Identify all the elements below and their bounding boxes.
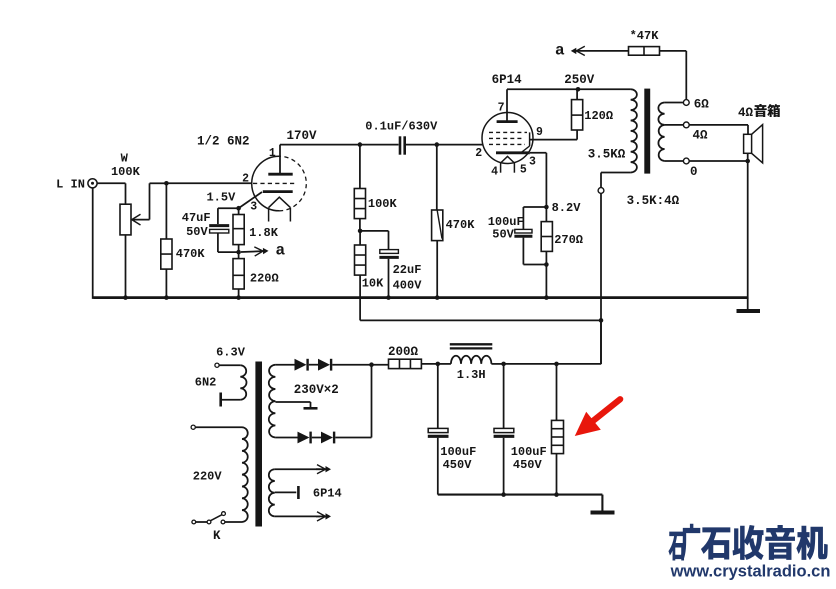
node coupling junction bbox=[435, 142, 440, 147]
svg-text:1/2 6N2: 1/2 6N2 bbox=[197, 135, 250, 149]
wire plate 170V bbox=[280, 129, 360, 145]
ground right bbox=[737, 298, 761, 311]
wire pot wiper bbox=[132, 183, 165, 225]
triode V1 1/2 6N2 bbox=[197, 135, 306, 222]
resistor 470K V2 grid bbox=[432, 145, 476, 300]
resistor 100K plate load bbox=[354, 145, 397, 231]
svg-text:22uF: 22uF bbox=[393, 263, 422, 277]
svg-text:8.2V: 8.2V bbox=[552, 201, 582, 215]
svg-text:100K: 100K bbox=[111, 165, 141, 179]
wire B+ branch bbox=[360, 318, 603, 323]
transformer T1 power bbox=[193, 345, 339, 526]
terminal 4Ω tap bbox=[683, 122, 748, 142]
resistor 10K bbox=[355, 231, 385, 321]
wire input to pot bbox=[97, 183, 125, 204]
node cathode 1.5V bbox=[206, 190, 240, 210]
wire ground bus bbox=[94, 296, 749, 299]
wire grid to V2 bbox=[437, 144, 483, 146]
wire pot to ground bbox=[123, 235, 128, 300]
wire filter ground bbox=[438, 495, 603, 512]
svg-text:6P14: 6P14 bbox=[313, 487, 342, 501]
svg-text:a: a bbox=[555, 42, 565, 60]
svg-text:6Ω: 6Ω bbox=[694, 97, 710, 111]
svg-text:0: 0 bbox=[690, 165, 698, 179]
svg-text:120Ω: 120Ω bbox=[584, 109, 613, 123]
svg-text:3.5KΩ: 3.5KΩ bbox=[588, 147, 626, 161]
svg-text:470K: 470K bbox=[176, 247, 206, 261]
node a (feedback tap) bbox=[236, 242, 285, 260]
node grid junction bbox=[164, 181, 169, 186]
choke 1.3H bbox=[438, 344, 504, 382]
terminal 6Ω tap bbox=[683, 97, 709, 111]
diode D2 bbox=[318, 359, 372, 371]
resistor 120Ω screen bbox=[572, 89, 614, 139]
resistor bleeder bbox=[552, 364, 564, 497]
speaker 4Ω bbox=[744, 125, 763, 163]
wire V2 cathode bbox=[530, 153, 547, 207]
label 4Ω音箱 speaker bbox=[738, 104, 780, 120]
svg-text:5: 5 bbox=[520, 163, 527, 176]
svg-text:10K: 10K bbox=[362, 276, 384, 290]
pentode V2 6P14 bbox=[475, 73, 577, 179]
svg-text:*47K: *47K bbox=[630, 29, 660, 43]
svg-text:3: 3 bbox=[529, 156, 536, 169]
resistor 220Ω bbox=[233, 259, 279, 300]
heater 6N2 bbox=[195, 375, 241, 406]
potentiometer W 100K bbox=[111, 152, 141, 235]
resistor 200Ω bbox=[388, 345, 438, 369]
svg-text:0.1uF/630V: 0.1uF/630V bbox=[365, 119, 438, 133]
svg-text:1.3H: 1.3H bbox=[457, 368, 486, 382]
svg-text:50V: 50V bbox=[492, 228, 514, 242]
node filter mid bbox=[501, 362, 556, 367]
wire grid to V1 bbox=[166, 182, 252, 184]
svg-text:6P14: 6P14 bbox=[492, 73, 523, 87]
wire primary bottom bbox=[598, 173, 631, 365]
svg-text:450V: 450V bbox=[443, 458, 473, 472]
watermark 矿石收音机 bbox=[668, 524, 827, 561]
capacitor 100uF/50V bbox=[488, 207, 547, 265]
svg-text:L IN: L IN bbox=[56, 178, 85, 192]
wire input ground bbox=[93, 188, 95, 299]
svg-text:4: 4 bbox=[491, 166, 498, 179]
node decoupling junction bbox=[358, 229, 363, 234]
svg-text:4Ω: 4Ω bbox=[738, 106, 754, 120]
wire rectifier up bbox=[371, 365, 373, 438]
resistor 1.8K bbox=[233, 208, 279, 258]
wire HV top bbox=[275, 364, 294, 366]
svg-text:1.8K: 1.8K bbox=[249, 226, 279, 240]
svg-text:3.5K:4Ω: 3.5K:4Ω bbox=[627, 194, 680, 208]
svg-text:www.crystalradio.cn: www.crystalradio.cn bbox=[670, 563, 831, 581]
resistor 270Ω bbox=[541, 207, 583, 300]
svg-text:220Ω: 220Ω bbox=[250, 271, 279, 285]
svg-text:470K: 470K bbox=[446, 218, 476, 232]
node filter out bbox=[554, 320, 601, 366]
svg-text:6.3V: 6.3V bbox=[216, 345, 246, 359]
terminal 6.3V bbox=[215, 363, 219, 367]
svg-text:3: 3 bbox=[250, 200, 257, 213]
terminal 220V bbox=[191, 425, 195, 429]
ground bottom bbox=[591, 511, 615, 515]
watermark url bbox=[670, 563, 831, 581]
svg-text:K: K bbox=[213, 529, 221, 543]
svg-text:W: W bbox=[121, 152, 129, 166]
svg-text:2: 2 bbox=[242, 172, 249, 185]
node filter in bbox=[436, 362, 441, 367]
capacitor 100uF/450V B bbox=[494, 364, 547, 497]
svg-text:a: a bbox=[275, 242, 285, 260]
svg-text:100K: 100K bbox=[368, 197, 398, 211]
svg-text:230V×2: 230V×2 bbox=[294, 383, 339, 397]
resistor 470K grid leak bbox=[161, 183, 206, 300]
switch K bbox=[192, 512, 226, 543]
input terminal L IN bbox=[56, 178, 97, 192]
svg-text:200Ω: 200Ω bbox=[388, 345, 419, 359]
svg-text:1.5V: 1.5V bbox=[206, 190, 236, 204]
center tap ground bbox=[275, 402, 317, 408]
capacitor 0.1uF/630V bbox=[360, 119, 438, 154]
capacitor 22uF/400V bbox=[360, 231, 422, 300]
capacitor 100uF/450V A bbox=[428, 364, 477, 495]
svg-text:4Ω: 4Ω bbox=[692, 128, 708, 142]
node 8.2V bbox=[544, 201, 581, 215]
wire feedback drop bbox=[685, 51, 687, 100]
node 250V bbox=[564, 73, 595, 92]
node plate junction bbox=[358, 142, 363, 147]
terminal 0 tap bbox=[683, 158, 750, 179]
transformer T2 output 3.5K:4Ω bbox=[588, 89, 684, 208]
resistor *47K feedback bbox=[555, 29, 686, 59]
svg-text:50V: 50V bbox=[186, 225, 208, 239]
svg-text:1: 1 bbox=[269, 147, 276, 160]
wire HV bottom bbox=[275, 437, 297, 439]
diode D1 bbox=[295, 359, 319, 371]
heater 6P14 leads bbox=[275, 465, 342, 521]
capacitor 47uF/50V bbox=[182, 208, 239, 252]
wire 250V line bbox=[507, 88, 631, 90]
svg-text:250V: 250V bbox=[564, 73, 595, 87]
svg-text:270Ω: 270Ω bbox=[554, 233, 583, 247]
svg-text:400V: 400V bbox=[393, 278, 423, 292]
svg-text:47uF: 47uF bbox=[182, 211, 211, 225]
diode D3 bbox=[298, 432, 322, 444]
svg-text:220V: 220V bbox=[193, 470, 223, 484]
svg-text:170V: 170V bbox=[286, 129, 317, 143]
node rectifier bbox=[369, 362, 388, 367]
svg-text:2: 2 bbox=[475, 147, 482, 160]
svg-text:7: 7 bbox=[498, 101, 505, 114]
svg-text:6N2: 6N2 bbox=[195, 375, 217, 389]
diode D4 bbox=[321, 432, 372, 444]
wire speaker ground bbox=[747, 153, 749, 299]
red arrow annotation bbox=[575, 399, 620, 436]
svg-text:450V: 450V bbox=[513, 458, 543, 472]
svg-text:9: 9 bbox=[536, 126, 543, 139]
